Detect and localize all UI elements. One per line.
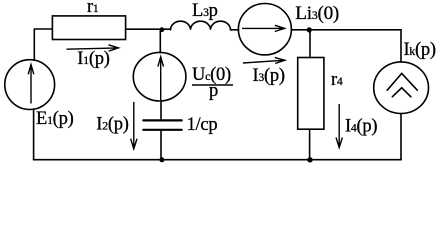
svg-text:p: p [209,81,218,101]
svg-text:L3p: L3p [192,1,218,21]
svg-text:Ik(p): Ik(p) [404,40,436,60]
svg-text:r1: r1 [87,0,99,17]
svg-text:I3(p): I3(p) [253,66,285,86]
svg-text:1/cp: 1/cp [187,115,218,135]
svg-text:Li3(0): Li3(0) [295,3,339,24]
svg-text:I2(p): I2(p) [96,115,128,135]
svg-text:I1(p): I1(p) [77,49,109,69]
svg-text:r4: r4 [331,70,343,90]
svg-text:I4(p): I4(p) [345,116,377,136]
svg-text:E1(p): E1(p) [36,109,74,129]
